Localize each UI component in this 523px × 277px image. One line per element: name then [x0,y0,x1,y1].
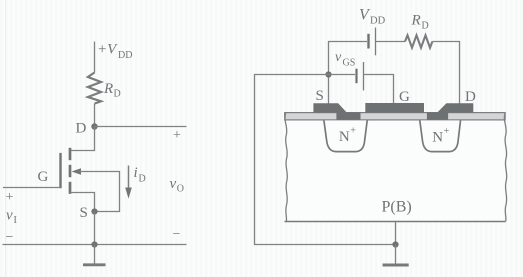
node D dot [91,123,97,129]
battery vGS positive bar [363,62,365,90]
svg-text:−: − [6,230,14,245]
wire: D to output + [95,126,187,128]
transistor Q1 body arrow [72,168,82,175]
S contact metal [313,103,360,120]
substrate bottom line [285,221,506,223]
substrate body fill [286,120,504,222]
svg-text:+V: +V [97,42,118,58]
D contact metal [427,103,473,120]
svg-text:R: R [103,81,113,97]
svg-text:v: v [335,50,342,65]
svg-text:+: + [350,126,356,137]
svg-text:D: D [422,21,429,32]
svg-text:G: G [399,89,410,105]
wire: junction to vGS battery [329,74,356,76]
junction dot (substrate ground) [392,241,398,247]
svg-text:S: S [316,88,324,104]
svg-text:D: D [139,174,146,185]
wire: D node down to drain lead [70,127,95,151]
resistor RD (left) [88,73,101,104]
transistor Q1 source segment [69,182,72,194]
battery VDD positive bar [375,28,377,56]
svg-text:R: R [411,13,421,29]
resistor RD (right) [405,35,432,47]
svg-text:v: v [170,176,177,192]
label iD [134,165,146,185]
label +VDD [97,42,132,62]
label vI [6,208,17,227]
wire: bottom rail [3,244,187,246]
wire: RD to terminal D [432,42,459,105]
G contact metal [365,103,424,113]
svg-text:+: + [6,190,14,205]
svg-text:v: v [6,208,13,224]
label N+ (left) [339,126,356,145]
svg-text:I: I [14,215,17,226]
oxide layer [285,113,505,120]
wire: gate lead [3,187,61,189]
svg-text:DD: DD [118,50,132,61]
label RD (right) [411,13,429,32]
ground (left) [83,245,106,265]
current arrow iD [125,166,132,199]
wire: RD to node D [94,104,96,127]
svg-text:DD: DD [370,16,386,27]
label N+ (right) [432,126,449,145]
wire: junction to substrate ground [255,75,393,245]
substrate left wavy edge [285,113,287,222]
battery VDD negative bar [367,34,369,49]
svg-text:D: D [76,121,87,137]
wire: junction to S contact [328,75,330,105]
label VDD (right) [359,7,386,27]
wire: battery to RD [376,41,406,43]
ground (right) [383,245,409,266]
wire: source lead [70,193,95,212]
N+ region (right) [420,120,461,151]
svg-text:O: O [177,184,184,195]
svg-text:G: G [38,169,49,185]
label vO [170,176,185,195]
svg-text:D: D [465,89,476,105]
transistor Q1 gate bar [59,153,61,188]
svg-text:+: + [173,128,181,143]
label vGS [335,50,355,69]
transistor Q1 drain segment [69,148,72,160]
substrate right wavy edge [504,113,506,222]
node S dot [91,208,97,214]
wire: S down to bottom rail [94,212,96,245]
svg-text:N: N [339,129,350,145]
wire: substrate to ground [395,222,397,245]
svg-text:i: i [134,165,138,181]
svg-text:D: D [114,89,121,100]
svg-text:N: N [432,129,443,145]
page edge artifact line [5,0,7,277]
svg-text:+: + [444,126,450,137]
wire: vGS battery to G contact [364,75,394,104]
junction dot (bottom rail) [91,241,97,247]
label RD (left) [103,81,121,100]
wire: body lead to S [80,172,120,212]
svg-text:−: − [173,227,181,242]
battery vGS negative bar [355,69,357,84]
transistor Q1 body segment [69,165,72,177]
node junction dot (S) [325,71,331,77]
N+ region (left) [324,120,367,151]
wire: top loop left side [329,42,368,75]
svg-text:P(B): P(B) [382,199,412,216]
svg-text:S: S [80,205,88,221]
svg-text:GS: GS [343,58,356,69]
wire: VDD supply stub [94,42,96,73]
